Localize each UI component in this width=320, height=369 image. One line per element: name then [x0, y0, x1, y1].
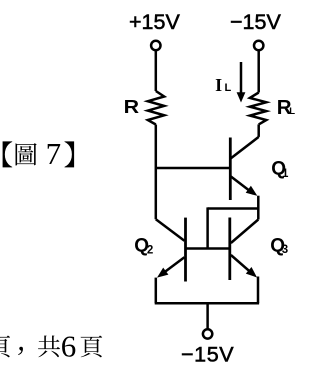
footer 共: [38, 335, 60, 357]
figure caption 圖: [16, 143, 37, 165]
transistor Q3 base bar: [228, 218, 231, 281]
svg-text:R: R: [124, 97, 140, 117]
svg-text:2: 2: [147, 245, 153, 257]
-15V top terminal circle: [254, 41, 263, 50]
svg-text:6: 6: [61, 328, 77, 363]
svg-text:3: 3: [282, 244, 288, 256]
svg-text:L: L: [289, 106, 295, 117]
wire bottom rail: [155, 302, 259, 305]
transistor Q3 emitter lead: [231, 255, 253, 274]
svg-text:I: I: [215, 75, 222, 95]
wire -15V terminal to resistor RL: [257, 50, 260, 92]
transistor Q2 collector lead: [156, 219, 185, 241]
footer 頁 (clipped): [0, 335, 10, 357]
wire base line joining Q2 and Q3 bases: [186, 247, 231, 250]
wire emitter node to bases: horizontal link: [208, 207, 259, 210]
figure caption bracket left 【: [3, 141, 13, 167]
-15V bottom terminal circle: [203, 329, 212, 338]
resistor RL: [250, 93, 266, 125]
svg-text:7: 7: [46, 136, 62, 171]
wire vertical link down to base line: [206, 207, 209, 248]
transistor Q3 emitter arrowhead: [246, 267, 257, 278]
footer ，: [18, 347, 23, 355]
svg-text:L: L: [225, 82, 232, 94]
svg-text:−15V: −15V: [230, 10, 281, 34]
svg-text:1: 1: [282, 168, 289, 180]
transistor Q2 emitter lead: [161, 257, 184, 274]
transistor Q1 collector lead: [231, 137, 259, 159]
transistor Q1 emitter lead: [231, 177, 254, 194]
wire node A: Q1 base wire from left rail: [156, 167, 231, 170]
wire Q1 emitter to Q3 collector (right rail): [257, 196, 260, 220]
wire +15V terminal to resistor R: [155, 50, 158, 91]
current IL arrow: [240, 62, 243, 94]
+15V terminal circle: [151, 41, 160, 50]
footer 頁: [81, 335, 103, 357]
wire resistor RL to Q1 collector: [257, 124, 260, 136]
figure caption bracket right 】: [65, 141, 75, 167]
resistor R: [148, 91, 164, 125]
svg-text:−15V: −15V: [181, 342, 234, 366]
transistor Q3 collector lead: [231, 220, 258, 244]
transistor Q1 base bar: [229, 138, 232, 201]
svg-text:+15V: +15V: [129, 10, 180, 34]
wire Q2 emitter to bottom rail: [155, 278, 158, 304]
transistor Q1 emitter arrowhead: [246, 186, 258, 196]
wire bottom rail to -15V terminal: [206, 303, 209, 329]
wire resistor R to Q2 collector (left rail): [155, 125, 158, 220]
transistor Q2 base bar: [184, 218, 187, 282]
transistor Q2 emitter arrowhead: [157, 268, 168, 278]
wire Q3 emitter to bottom rail: [257, 277, 260, 304]
